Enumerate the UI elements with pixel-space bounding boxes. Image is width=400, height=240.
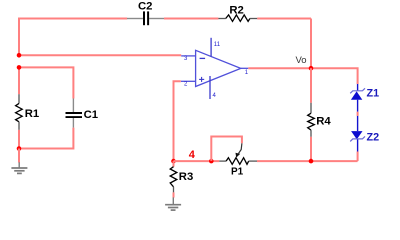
svg-text:R4: R4 [316,115,331,127]
node junction (19,148.5) [17,146,22,151]
svg-text:4: 4 [189,149,196,161]
pin 11 power line [210,38,212,57]
op-amp body [196,50,241,86]
wiper arrow [239,143,242,153]
pin 4 power line [209,76,211,99]
potentiometer P1 [219,143,257,177]
resistor R1 [16,94,40,130]
node junction Vo (311,68.2) [309,66,314,71]
svg-text:Vo: Vo [296,55,307,66]
wire: RC tank loop (left rail, C1 branch) [19,67,73,148]
pin 2 stub (non-inverting input) [181,80,196,82]
capacitor C1 [66,99,99,128]
svg-text:R3: R3 [179,171,193,183]
zener diode Z1 [350,84,379,112]
pin 1 output stub [241,67,249,69]
node junction 4 (173.5,161.1) [171,159,176,164]
wire: stub R3 to ground [173,192,175,197]
wire: bottom rail y=161.1 [174,160,220,162]
wire: between zeners [357,112,359,116]
svg-text:C2: C2 [138,1,152,13]
resistor R4 [308,103,332,137]
node junction (19,67.4) [17,65,22,70]
svg-text:R1: R1 [25,108,39,120]
svg-text:11: 11 [214,42,221,48]
wire: Z2 to bottom rail [357,152,359,162]
wire: right vertical from R2 down to output node [310,19,312,69]
node junction (311,161.1) [309,159,314,164]
wire: top feedback rail y=18.5 [19,19,311,56]
wire: R4 branch vertical [310,68,312,103]
svg-text:P1: P1 [231,166,244,177]
wire: inverting input wire y=55.3 [19,54,181,56]
capacitor C2 [127,1,164,26]
wire: non-inverting input wire to node 4 [174,81,181,161]
svg-text:Z2: Z2 [367,131,380,143]
ground (under R3) [165,197,181,210]
pin 3 stub (inverting input) [181,55,195,57]
ground (left, under R1) [11,162,27,173]
node junction (211.3,161.1) [209,159,214,164]
plus sign [199,78,204,80]
zener diode Z2 [350,116,379,152]
wire: output node to Vo / zener branch [248,68,357,84]
wire: potentiometer wiper loop [211,137,242,161]
svg-text:R2: R2 [229,5,243,17]
minus sign [200,57,206,59]
svg-text:Z1: Z1 [367,88,380,100]
node junction (19,55.3) [17,53,22,58]
svg-text:C1: C1 [84,109,98,121]
resistor R2 [218,5,257,22]
op-amp U1 [181,38,249,99]
wire: stub from R1/C1 node down to ground [18,149,20,163]
resistor R3 [170,161,193,192]
